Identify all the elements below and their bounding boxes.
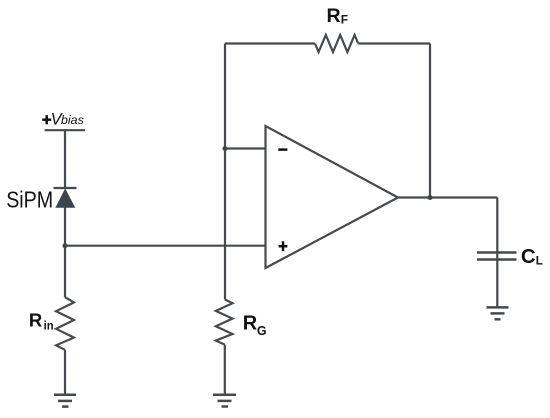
svg-text:C: C [521,245,536,268]
svg-text:bias: bias [61,115,84,127]
svg-text:R: R [29,310,42,331]
svg-text:R: R [327,5,341,27]
svg-text:in: in [44,319,54,333]
svg-text:G: G [257,324,267,338]
svg-text:R: R [243,313,258,335]
svg-text:SiPM: SiPM [6,187,53,213]
svg-text:F: F [341,13,348,27]
svg-text:L: L [536,256,543,268]
